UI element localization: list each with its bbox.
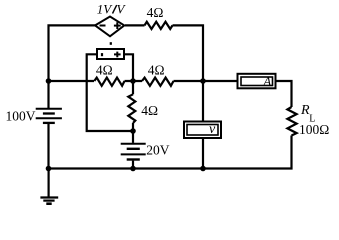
wire top-left horizontal and left rail down to 100V battery [49, 25, 96, 108]
ground symbol [40, 196, 58, 198]
wire ammeter to right rail corner [277, 81, 292, 107]
wire left rail battery bottom to bottom row [47, 124, 49, 169]
minus sign inside diamond [100, 25, 106, 27]
bottom-middle junction dot [130, 166, 136, 172]
resistor 4ohm R1 zigzag [94, 78, 124, 86]
bottom-left junction dot [46, 166, 52, 172]
minus tick inside sense box [101, 53, 103, 56]
wire sense box left terminal down to node D [87, 54, 133, 131]
node C junction dot [130, 78, 136, 84]
wire voltmeter top lead [202, 81, 204, 121]
battery 20V plates [121, 143, 146, 145]
dash link between diamond and sense box [110, 42, 112, 45]
node B junction dot [200, 78, 206, 84]
svg-text:100V: 100V [6, 108, 36, 123]
wire node C down to vertical resistor [132, 81, 134, 94]
resistor RL zigzag vertical [287, 107, 296, 136]
wire 20V battery bottom to bottom row [132, 161, 134, 169]
voltmeter V box [184, 122, 221, 139]
wire sense box right terminal down to node C [125, 54, 133, 81]
svg-text:4Ω: 4Ω [96, 63, 113, 78]
bottom voltmeter junction dot [200, 166, 206, 172]
wire between R1 and node C [125, 80, 143, 82]
svg-text:A: A [263, 75, 272, 89]
svg-text:4Ω: 4Ω [141, 103, 158, 118]
wire top resistor to top-right corner down to node B [173, 25, 204, 81]
battery 100V plates [36, 108, 62, 110]
svg-text:v: v [209, 122, 216, 137]
wire R2 to ammeter [174, 80, 237, 82]
svg-text:100Ω: 100Ω [299, 122, 329, 137]
svg-text:20V: 20V [146, 143, 170, 158]
wire right rail bottom and bottom row [49, 136, 292, 169]
wire diamond right to top 4ohm resistor [125, 24, 145, 26]
node D junction dot [130, 128, 136, 134]
dependent source U1 diamond 1V/V [95, 17, 124, 37]
plus sign inside sense box [114, 53, 121, 55]
svg-text:4Ω: 4Ω [147, 5, 164, 20]
ammeter A box [238, 74, 276, 89]
svg-text:1V: 1V [97, 1, 114, 16]
wire voltmeter bottom lead [202, 139, 204, 169]
resistor 4ohm top zigzag [145, 22, 173, 29]
resistor 4ohm vertical zigzag [128, 94, 135, 123]
plus sign inside diamond [114, 25, 121, 27]
sense box of dependent source [97, 49, 124, 59]
wire vertical resistor to 20V battery [132, 123, 134, 143]
ground stub [47, 169, 49, 197]
svg-text:4Ω: 4Ω [148, 63, 165, 78]
resistor 4ohm R2 zigzag [142, 78, 174, 86]
node A junction dot [46, 78, 52, 84]
wire middle row left segment [49, 80, 95, 82]
